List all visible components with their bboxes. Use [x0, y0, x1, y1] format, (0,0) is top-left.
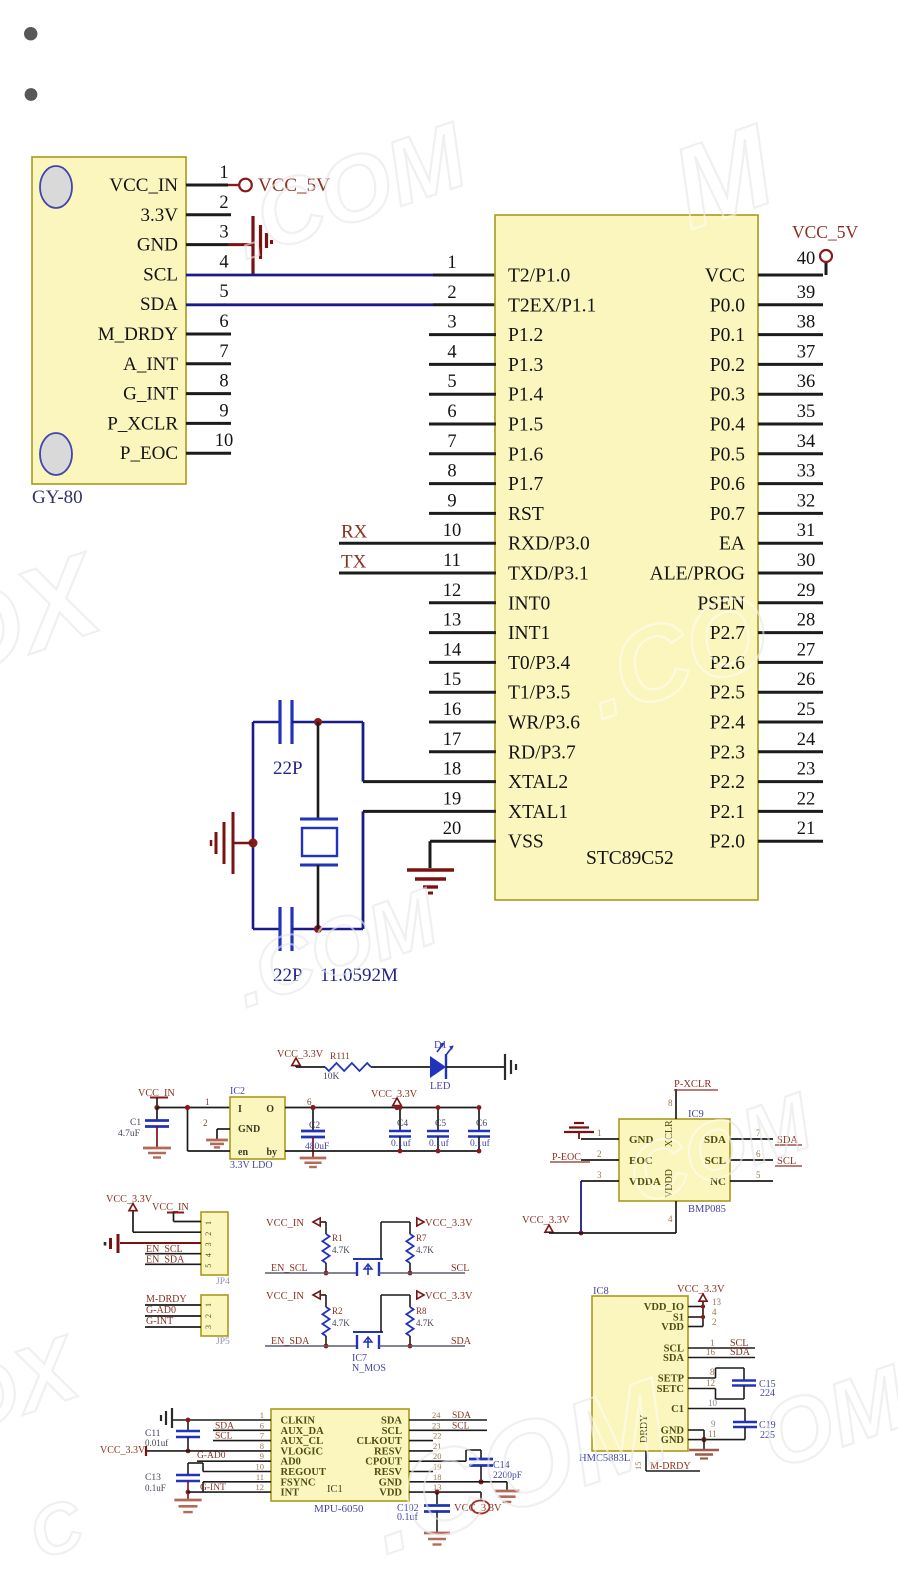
svg-text:P0.3: P0.3 [710, 385, 745, 406]
svg-text:SDA: SDA [215, 1421, 234, 1431]
svg-text:0.1uf: 0.1uf [470, 1138, 491, 1149]
svg-text:4: 4 [447, 342, 456, 362]
svg-text:14: 14 [443, 640, 462, 660]
svg-text:0.01uf: 0.01uf [145, 1438, 168, 1448]
svg-text:GND: GND [238, 1124, 260, 1135]
svg-text:30: 30 [797, 551, 816, 571]
svg-text:9: 9 [447, 491, 456, 511]
svg-text:VSS: VSS [508, 832, 544, 853]
svg-text:IC1: IC1 [327, 1484, 343, 1495]
svg-text:3.3V LDO: 3.3V LDO [230, 1160, 273, 1171]
svg-text:38: 38 [797, 313, 816, 333]
svg-text:C6: C6 [476, 1119, 487, 1129]
svg-text:C2: C2 [309, 1121, 320, 1131]
svg-text:SDA: SDA [730, 1347, 751, 1358]
svg-text:C5: C5 [435, 1119, 446, 1129]
svg-text:VCC_3.3V: VCC_3.3V [522, 1215, 570, 1226]
svg-text:.COM: .COM [222, 871, 451, 1024]
svg-text:DX: DX [0, 529, 120, 704]
svg-text:T2EX/P1.1: T2EX/P1.1 [508, 295, 596, 316]
svg-text:OM: OM [749, 1346, 898, 1488]
svg-text:VCC_3.3V: VCC_3.3V [371, 1089, 418, 1100]
svg-text:12: 12 [256, 1482, 265, 1492]
svg-text:31: 31 [797, 521, 816, 541]
svg-text:26: 26 [797, 670, 816, 690]
svg-text:25: 25 [797, 700, 816, 720]
svg-text:A_INT: A_INT [123, 354, 178, 375]
svg-text:1: 1 [260, 1410, 264, 1420]
svg-text:R1: R1 [332, 1233, 343, 1243]
svg-text:6: 6 [260, 1420, 264, 1430]
svg-text:24: 24 [432, 1410, 441, 1420]
svg-text:EN_SDA: EN_SDA [271, 1336, 310, 1347]
svg-text:9: 9 [219, 401, 228, 421]
svg-text:0.1uf: 0.1uf [429, 1138, 450, 1149]
svg-text:39: 39 [797, 283, 816, 303]
svg-text:6: 6 [307, 1097, 312, 1107]
svg-text:19: 19 [443, 789, 462, 809]
svg-text:SCL: SCL [215, 1432, 233, 1442]
svg-text:VCC_IN: VCC_IN [266, 1291, 304, 1302]
svg-text:7: 7 [219, 342, 228, 362]
svg-text:INT: INT [281, 1488, 300, 1499]
svg-text:8: 8 [219, 372, 228, 392]
svg-text:WR/P3.6: WR/P3.6 [508, 713, 580, 734]
svg-text:2: 2 [204, 1314, 213, 1318]
svg-text:2: 2 [204, 1232, 213, 1236]
svg-text:VCC_3.3V: VCC_3.3V [100, 1445, 146, 1456]
svg-text:9: 9 [711, 1419, 716, 1429]
svg-text:33: 33 [797, 462, 816, 482]
svg-text:7: 7 [447, 432, 456, 452]
svg-text:GY-80: GY-80 [32, 487, 83, 508]
svg-text:24: 24 [797, 730, 816, 750]
svg-text:SDA: SDA [140, 294, 178, 315]
svg-text:P1.5: P1.5 [508, 415, 543, 436]
svg-text:1: 1 [597, 1128, 602, 1138]
svg-text:D1: D1 [434, 1040, 447, 1051]
svg-text:IC2: IC2 [230, 1086, 245, 1097]
svg-text:EN_SCL: EN_SCL [271, 1263, 308, 1274]
svg-text:16: 16 [706, 1347, 716, 1357]
svg-text:3.3V: 3.3V [141, 205, 179, 226]
svg-text:T0/P3.4: T0/P3.4 [508, 653, 571, 674]
svg-text:9: 9 [260, 1451, 264, 1461]
svg-text:2: 2 [597, 1149, 602, 1159]
svg-text:SETC: SETC [657, 1384, 684, 1395]
svg-text:22P: 22P [273, 758, 303, 779]
svg-text:P0.4: P0.4 [710, 415, 745, 436]
svg-text:TX: TX [341, 552, 367, 573]
svg-text:P0.6: P0.6 [710, 474, 745, 495]
svg-text:P-XCLR: P-XCLR [674, 1079, 711, 1090]
svg-text:4.7K: 4.7K [332, 1318, 350, 1328]
svg-text:VCC_3.3V: VCC_3.3V [425, 1218, 473, 1229]
svg-text:P_XCLR: P_XCLR [107, 413, 178, 434]
svg-text:VCC_IN: VCC_IN [152, 1202, 189, 1213]
svg-text:SCL: SCL [451, 1263, 469, 1274]
svg-text:37: 37 [797, 342, 816, 362]
svg-text:RST: RST [508, 504, 544, 525]
svg-text:1: 1 [204, 1303, 213, 1307]
svg-text:15: 15 [443, 670, 462, 690]
svg-text:VCC_IN: VCC_IN [266, 1218, 304, 1229]
svg-text:4.7K: 4.7K [416, 1318, 434, 1328]
svg-text:P2.0: P2.0 [710, 832, 745, 853]
svg-text:18: 18 [443, 760, 462, 780]
svg-text:5: 5 [219, 282, 228, 302]
svg-text:N_MOS: N_MOS [352, 1363, 386, 1374]
svg-text:RXD/P3.0: RXD/P3.0 [508, 534, 590, 555]
svg-text:BMP085: BMP085 [688, 1204, 726, 1215]
svg-text:2: 2 [447, 283, 456, 303]
svg-text:C: C [19, 1484, 94, 1575]
svg-text:VCC: VCC [705, 266, 745, 287]
svg-text:P0.5: P0.5 [710, 444, 745, 465]
svg-text:8: 8 [710, 1367, 715, 1377]
svg-text:11: 11 [443, 551, 461, 571]
svg-text:G-INT: G-INT [146, 1316, 173, 1327]
svg-text:SDA: SDA [663, 1353, 684, 1364]
svg-text:P2.2: P2.2 [710, 772, 745, 793]
svg-text:M-DRDY: M-DRDY [146, 1294, 187, 1305]
svg-text:4: 4 [712, 1307, 717, 1317]
svg-text:5: 5 [447, 372, 456, 392]
svg-text:29: 29 [797, 581, 816, 601]
svg-text:16: 16 [443, 700, 462, 720]
svg-text:STC89C52: STC89C52 [586, 848, 674, 869]
svg-text:VCC_3.3V: VCC_3.3V [277, 1049, 324, 1060]
svg-text:8: 8 [668, 1098, 673, 1108]
svg-text:P1.3: P1.3 [508, 355, 543, 376]
svg-text:M_DRDY: M_DRDY [98, 324, 179, 345]
svg-text:3: 3 [447, 313, 456, 333]
svg-text:JP5: JP5 [216, 1337, 230, 1347]
svg-text:0.1uF: 0.1uF [145, 1483, 166, 1493]
svg-text:VCC_5V: VCC_5V [792, 222, 858, 242]
svg-text:P1.4: P1.4 [508, 385, 543, 406]
svg-text:P0.7: P0.7 [710, 504, 745, 525]
svg-text:3: 3 [597, 1170, 602, 1180]
svg-text:12: 12 [443, 581, 462, 601]
svg-text:SDA: SDA [451, 1336, 472, 1347]
svg-text:2: 2 [203, 1118, 208, 1128]
svg-text:8: 8 [260, 1441, 264, 1451]
svg-text:21: 21 [797, 819, 816, 839]
svg-text:VDD_IO: VDD_IO [644, 1302, 684, 1313]
svg-text:C1: C1 [671, 1404, 684, 1415]
svg-text:RX: RX [341, 522, 368, 543]
svg-text:VCC_3.3V: VCC_3.3V [677, 1284, 725, 1295]
svg-text:7: 7 [260, 1431, 264, 1441]
svg-text:MPU-6050: MPU-6050 [314, 1503, 364, 1515]
svg-text:10K: 10K [323, 1072, 340, 1082]
svg-text:28: 28 [797, 611, 816, 631]
svg-text:P0.1: P0.1 [710, 325, 745, 346]
svg-text:12: 12 [706, 1378, 715, 1388]
svg-text:LED: LED [430, 1081, 451, 1092]
svg-text:VCC_3.3V: VCC_3.3V [106, 1194, 153, 1205]
svg-text:4: 4 [219, 252, 228, 272]
svg-text:40: 40 [797, 249, 816, 269]
svg-text:XTAL1: XTAL1 [508, 802, 568, 823]
svg-text:35: 35 [797, 402, 816, 422]
svg-text:11: 11 [708, 1429, 717, 1439]
svg-text:27: 27 [797, 640, 816, 660]
svg-text:P2.4: P2.4 [710, 713, 745, 734]
svg-text:JP4: JP4 [216, 1277, 230, 1287]
svg-text:P-EOC: P-EOC [552, 1152, 581, 1163]
svg-text:4.7K: 4.7K [332, 1245, 350, 1255]
svg-text:22: 22 [797, 789, 816, 809]
svg-text:VCC_3.3V: VCC_3.3V [425, 1291, 473, 1302]
svg-text:3: 3 [204, 1325, 213, 1329]
svg-text:VCC_IN: VCC_IN [109, 175, 178, 196]
svg-text:G-INT: G-INT [200, 1483, 226, 1493]
svg-text:P2.3: P2.3 [710, 742, 745, 763]
svg-text:R111: R111 [330, 1052, 350, 1062]
svg-text:3: 3 [219, 223, 228, 243]
svg-text:32: 32 [797, 491, 816, 511]
svg-text:1: 1 [447, 253, 456, 273]
svg-text:en: en [238, 1147, 248, 1158]
svg-text:11: 11 [256, 1472, 264, 1482]
svg-text:VDD: VDD [661, 1322, 684, 1333]
svg-text:13: 13 [443, 611, 462, 631]
svg-text:6: 6 [447, 402, 456, 422]
svg-text:4.7K: 4.7K [416, 1245, 434, 1255]
svg-text:P1.6: P1.6 [508, 444, 543, 465]
svg-text:TXD/P3.1: TXD/P3.1 [508, 564, 589, 585]
svg-text:T2/P1.0: T2/P1.0 [508, 266, 570, 287]
svg-text:6: 6 [219, 312, 228, 332]
svg-text:C13: C13 [145, 1473, 161, 1483]
svg-text:P0.2: P0.2 [710, 355, 745, 376]
svg-text:T1/P3.5: T1/P3.5 [508, 683, 570, 704]
svg-text:C4: C4 [397, 1119, 408, 1129]
svg-text:R2: R2 [332, 1306, 343, 1316]
svg-text:36: 36 [797, 372, 816, 392]
svg-text:SETP: SETP [658, 1374, 685, 1385]
svg-text:P0.0: P0.0 [710, 295, 745, 316]
svg-text:.COM: .COM [218, 103, 481, 278]
svg-text:G-AD0: G-AD0 [197, 1451, 226, 1461]
svg-text:by: by [266, 1147, 277, 1158]
svg-text:1: 1 [205, 1097, 210, 1107]
svg-text:INT1: INT1 [508, 623, 550, 644]
svg-text:P1.2: P1.2 [508, 325, 543, 346]
svg-text:R8: R8 [416, 1306, 427, 1316]
svg-text:G-AD0: G-AD0 [146, 1305, 176, 1316]
svg-text:10: 10 [708, 1398, 718, 1408]
svg-text:IC8: IC8 [593, 1286, 609, 1297]
svg-text:I: I [238, 1104, 242, 1115]
svg-text:34: 34 [797, 432, 816, 452]
svg-text:2: 2 [712, 1317, 717, 1327]
svg-text:17: 17 [443, 730, 462, 750]
svg-text:EA: EA [719, 534, 745, 555]
svg-text:10: 10 [215, 431, 234, 451]
svg-text:P2.1: P2.1 [710, 802, 745, 823]
svg-text:SCL: SCL [143, 264, 178, 285]
svg-text:R7: R7 [416, 1233, 427, 1243]
svg-text:0.1uf: 0.1uf [391, 1138, 412, 1149]
svg-text:23: 23 [797, 760, 816, 780]
svg-text:.COM: .COM [350, 1354, 687, 1576]
svg-text:GND: GND [137, 235, 178, 256]
svg-text:4: 4 [668, 1214, 673, 1224]
svg-text:P1.7: P1.7 [508, 474, 543, 495]
svg-text:8: 8 [447, 462, 456, 482]
svg-text:20: 20 [443, 819, 462, 839]
svg-text:10: 10 [443, 521, 462, 541]
svg-text:1: 1 [204, 1221, 213, 1225]
svg-text:INT0: INT0 [508, 593, 550, 614]
svg-text:DX: DX [0, 1317, 94, 1454]
svg-text:C1: C1 [130, 1118, 141, 1128]
svg-text:10: 10 [256, 1462, 265, 1472]
svg-text:5: 5 [204, 1264, 213, 1268]
svg-text:XTAL2: XTAL2 [508, 772, 568, 793]
svg-text:4: 4 [204, 1253, 213, 1257]
svg-text:O: O [266, 1104, 274, 1115]
svg-text:3: 3 [204, 1242, 213, 1246]
svg-text:13: 13 [712, 1297, 722, 1307]
svg-text:P_EOC: P_EOC [120, 443, 178, 464]
svg-text:G_INT: G_INT [123, 384, 178, 405]
svg-text:RD/P3.7: RD/P3.7 [508, 742, 576, 763]
svg-text:4.7uF: 4.7uF [118, 1129, 140, 1139]
